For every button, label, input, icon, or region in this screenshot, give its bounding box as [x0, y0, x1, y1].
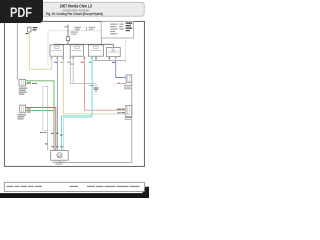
salmon wire down then right to condenser connector: [84, 56, 86, 61]
right connector B1: [126, 75, 132, 82]
label text block left-top: [26, 27, 38, 34]
bottom-right corner dark rounding: [139, 187, 149, 195]
cyan wire: [61, 56, 92, 150]
motor label: [53, 162, 66, 165]
main feed into fuse box: [67, 25, 69, 31]
relay pin number ticks: [51, 57, 117, 60]
blue wire down to fan motor: [56, 56, 58, 61]
tan feeder wire from small fuse down and into relay R1: [29, 32, 51, 69]
wire battery feed (left): [16, 23, 18, 79]
svg-text:M: M: [58, 154, 61, 158]
relay pin stubs: [109, 57, 111, 61]
bus wire: [54, 43, 114, 45]
green wire: C101 right then down to motor: [26, 81, 55, 151]
internal link wire: [93, 60, 126, 62]
vertical down from B1: [131, 82, 133, 162]
fuse symbol inside: [67, 31, 69, 37]
relay 1: [50, 45, 64, 56]
ground symbol G101: [93, 88, 99, 91]
gray pair to ground: [69, 56, 71, 83]
connector label text: [19, 88, 28, 95]
relay 4: [107, 47, 121, 56]
wire colour code labels under box: [54, 62, 115, 65]
under-hood fuse/relay box (dashed): [48, 31, 101, 65]
label stub under: [121, 82, 126, 84]
connector C102 bottom: [20, 105, 26, 113]
tall narrow connector strip box: [43, 87, 48, 131]
small stubs above fuse box: [77, 27, 79, 31]
svg-text:Fig. 26: Cooling Fan Circuit (: Fig. 26: Cooling Fan Circuit (Except Hyb…: [46, 12, 104, 16]
green branch into C102: [26, 110, 55, 112]
connector C102 label: [18, 114, 27, 119]
relay 2: [70, 45, 83, 56]
blue elbow from relay4: [116, 60, 126, 78]
B2 label below: [125, 117, 133, 120]
red wire: C102 right then down to motor: [26, 108, 56, 151]
pin number labels near bottom cluster: [45, 133, 63, 147]
tan wire down then right: [62, 56, 64, 61]
gray stub from strip box to motor: [47, 131, 49, 151]
teal wire 2: [64, 118, 93, 151]
black stub + label: [26, 83, 32, 85]
wire labels before B2: [117, 109, 121, 110]
dark background strip at bottom: [0, 193, 149, 198]
fuse block small (left, under flap): [28, 27, 31, 32]
top-right label box: [101, 21, 133, 38]
relay 3: [89, 45, 104, 56]
svg-text:PDF: PDF: [10, 5, 32, 20]
diagram frame: [4, 21, 144, 166]
page background: [0, 0, 149, 198]
right connector B2: [126, 105, 132, 116]
connector C101 top: [19, 79, 26, 86]
PDF flap: [0, 0, 43, 23]
motor ground run: [60, 160, 132, 162]
header grey box: [4, 2, 144, 16]
